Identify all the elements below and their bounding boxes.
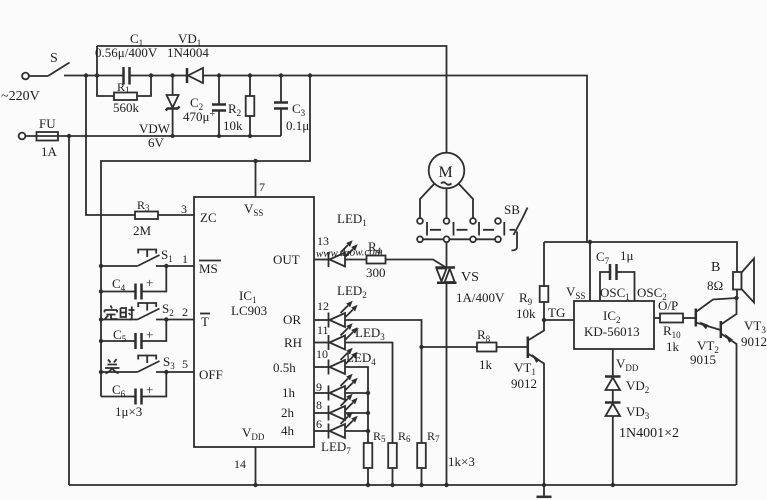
SB contact lower: [495, 236, 501, 242]
svg-text:9012: 9012: [511, 376, 537, 391]
svg-text:R9: R9: [519, 290, 533, 307]
svg-text:LED4: LED4: [346, 350, 376, 367]
svg-text:OSC1: OSC1: [600, 285, 630, 302]
node (R3 tap): [84, 73, 88, 77]
svg-text:C5: C5: [113, 327, 127, 344]
svg-text:11: 11: [317, 323, 329, 337]
motor M: [429, 153, 465, 189]
svg-text:2: 2: [182, 305, 188, 319]
node R7 on rail: [419, 483, 423, 487]
resistor R1 body: [114, 93, 137, 101]
svg-text:8: 8: [316, 398, 322, 412]
svg-text:S2: S2: [162, 301, 174, 318]
speaker B body: [733, 272, 742, 290]
svg-text:560k: 560k: [113, 100, 140, 115]
wire C1 to VD1: [130, 75, 188, 77]
wire R4 to VS gate: [386, 260, 447, 268]
transistor VT3 base bar: [720, 321, 723, 338]
speed contact circle 1 upper: [417, 218, 423, 224]
svg-text:R4: R4: [368, 239, 382, 256]
ground rail (bottom): [69, 484, 736, 486]
svg-text:VS: VS: [461, 270, 479, 285]
capacitor C4 row: [101, 266, 166, 292]
svg-text:VD2: VD2: [626, 378, 649, 395]
svg-text:S1: S1: [161, 247, 173, 264]
svg-text:R1: R1: [117, 80, 130, 95]
svg-text:8Ω: 8Ω: [707, 278, 723, 293]
wire LED7 to column: [345, 430, 368, 432]
switch S3: [138, 356, 160, 373]
svg-text:R3: R3: [137, 198, 150, 213]
svg-text:LED2: LED2: [337, 283, 367, 300]
node pin7 tap: [253, 159, 257, 163]
node C5 riser: [164, 317, 168, 321]
transistor VT2 base bar: [695, 309, 698, 327]
speed contact circle 3 lower: [470, 236, 476, 242]
VT1 collector: [528, 320, 544, 341]
switch S1: [138, 250, 160, 267]
speaker cone: [742, 259, 755, 303]
svg-text:IC2: IC2: [603, 308, 621, 325]
svg-text:C7: C7: [596, 249, 610, 266]
svg-text:KD-56013: KD-56013: [584, 324, 640, 339]
LED6: [329, 394, 358, 421]
node R8 tap: [419, 345, 423, 349]
wire contacts to triac: [446, 242, 448, 267]
wire S2 row: [101, 319, 194, 321]
wire lower contacts common: [420, 238, 498, 240]
speed contact circle 1 lower: [417, 236, 423, 242]
resistor R9: [543, 302, 545, 320]
svg-text:C4: C4: [112, 276, 126, 293]
contact bar 3: [478, 222, 480, 236]
svg-text:+: +: [146, 327, 153, 342]
label guan: [105, 359, 120, 374]
LED3: [329, 323, 358, 350]
svg-text:9015: 9015: [690, 352, 716, 367]
capacitor C5 row: [101, 320, 166, 342]
triac VS top bar: [436, 266, 456, 269]
node C3: [279, 73, 283, 77]
svg-text:9: 9: [316, 380, 322, 394]
diode VD2: [605, 375, 621, 378]
svg-text:OUT: OUT: [273, 252, 300, 267]
svg-text:13: 13: [317, 234, 329, 248]
wire pin 6: [314, 430, 329, 432]
VT2 emitter arrow (PNP): [700, 322, 709, 330]
svg-text:VT3: VT3: [744, 318, 766, 335]
resistor R3 body: [135, 212, 158, 220]
wire pin 9: [314, 392, 329, 394]
speed contact circle 2 lower: [444, 236, 450, 242]
switch S2: [138, 303, 160, 320]
svg-text:1N4004: 1N4004: [167, 45, 209, 60]
wire LED1 to R4: [345, 259, 367, 261]
svg-text:C3: C3: [292, 101, 306, 118]
resistor R7: [417, 443, 426, 468]
wire pin 13: [314, 259, 329, 261]
motor lead left: [420, 184, 435, 219]
VT3 emitter: [721, 334, 737, 486]
svg-text:ZC: ZC: [200, 210, 217, 225]
svg-text:10k: 10k: [223, 118, 243, 133]
svg-text:VSS: VSS: [244, 201, 263, 218]
node S3: [99, 370, 103, 374]
op IC1 LC903 box: [194, 197, 314, 447]
node LED7 join: [366, 429, 370, 433]
svg-text:VDW: VDW: [139, 121, 171, 136]
wire top rail to motor: [97, 46, 447, 153]
wire TG to IC2: [544, 319, 574, 321]
wire pin 12: [314, 319, 329, 321]
speed contact circle 2 upper: [444, 218, 450, 224]
svg-text:0.5h: 0.5h: [273, 360, 296, 375]
wire pin 14: [255, 447, 257, 485]
resistor R8 body: [477, 343, 497, 352]
contact bar SB: [503, 222, 505, 236]
svg-text:VSS: VSS: [566, 284, 585, 301]
svg-text:VDD: VDD: [616, 356, 639, 373]
svg-text:R5: R5: [373, 429, 386, 444]
svg-text:~220V: ~220V: [1, 89, 40, 104]
node left drop: [67, 134, 71, 138]
wire top branch riser: [96, 46, 98, 76]
wire R3 feed from live: [86, 76, 135, 216]
LED2: [329, 301, 358, 328]
svg-text:10k: 10k: [516, 306, 536, 321]
wire triac to ground rail: [446, 283, 448, 485]
node C2 bottom: [217, 134, 221, 138]
svg-text:R2: R2: [228, 101, 241, 118]
node LED6 join: [366, 411, 370, 415]
svg-text:S3: S3: [163, 354, 175, 371]
svg-text:RH: RH: [284, 335, 302, 350]
svg-text:4h: 4h: [281, 423, 295, 438]
svg-text:VDD: VDD: [242, 425, 265, 442]
svg-text:1μ: 1μ: [620, 248, 634, 263]
node S2: [99, 317, 103, 321]
node C4 riser: [164, 264, 168, 268]
contact bar 1: [426, 222, 428, 236]
svg-text:2M: 2M: [133, 223, 152, 238]
wire pin 10: [314, 366, 329, 368]
zener VDW: [172, 76, 174, 96]
svg-text:T: T: [201, 314, 209, 329]
resistor R10 body: [660, 314, 683, 323]
svg-text:3: 3: [181, 202, 187, 216]
LED5: [329, 374, 358, 401]
svg-text:6V: 6V: [148, 135, 165, 150]
node (top branch): [95, 73, 99, 77]
svg-text:R8: R8: [477, 327, 491, 344]
svg-text:1h: 1h: [282, 385, 296, 400]
capacitor C2: [218, 76, 220, 105]
VT3 collector: [721, 298, 737, 325]
wire O/P to R10: [654, 317, 660, 319]
wire pin 8: [314, 412, 329, 414]
svg-text:1A: 1A: [41, 144, 58, 159]
node pin14 on rail: [253, 483, 257, 487]
node LED5 join: [366, 391, 370, 395]
svg-text:14: 14: [234, 457, 246, 471]
svg-text:0.56μ/400V: 0.56μ/400V: [95, 45, 158, 60]
ground symbol: [543, 485, 545, 496]
svg-text:LC903: LC903: [231, 303, 267, 318]
node TG junction: [542, 318, 546, 322]
wire LED2 to R7 column: [345, 320, 422, 443]
svg-text:5: 5: [182, 357, 188, 371]
capacitor C6 row: [101, 372, 166, 397]
wire from L terminal: [29, 75, 48, 77]
diode VD3: [605, 401, 621, 404]
svg-text:LED3: LED3: [355, 325, 385, 342]
wire Vss pin (IC2): [589, 242, 591, 301]
svg-text:1k: 1k: [479, 357, 493, 372]
switch common rail node S1: [99, 264, 103, 268]
svg-text:B: B: [711, 260, 720, 275]
node R2 bottom: [248, 134, 252, 138]
node C2: [217, 73, 221, 77]
svg-text:0.1μ: 0.1μ: [286, 118, 309, 133]
node R5 on rail: [366, 483, 370, 487]
wire VDD pin (IC2): [612, 349, 614, 377]
wire LED6 to column: [345, 412, 368, 414]
triac right triangle: [445, 269, 455, 282]
svg-text:12: 12: [317, 299, 329, 313]
wire neutral rail: [25, 135, 281, 137]
motor lead right: [459, 184, 474, 219]
resistor R2: [249, 76, 251, 137]
wire R3 to pin 3: [158, 214, 194, 216]
wire S3 row: [101, 371, 194, 373]
VT2 collector: [696, 298, 737, 312]
svg-text:1k: 1k: [666, 339, 680, 354]
svg-text:1k×3: 1k×3: [448, 454, 475, 469]
transistor VT1 base bar: [527, 337, 530, 359]
triac left triangle: [437, 269, 447, 282]
wire R10 to VT2 base: [683, 317, 696, 319]
wire LED3 to R6 column: [345, 343, 393, 444]
resistor R1 parallel path: [97, 76, 151, 97]
svg-text:1A/400V: 1A/400V: [456, 290, 505, 305]
svg-text:+: +: [146, 382, 153, 397]
svg-text:1N4001×2: 1N4001×2: [619, 426, 679, 441]
svg-text:LED7: LED7: [321, 439, 351, 456]
terminal L (~220V live): [22, 73, 29, 80]
switch SB lever: [512, 208, 528, 251]
op IC2 KD-56013 box: [574, 301, 654, 349]
svg-text:470μ+: 470μ+: [183, 109, 215, 124]
svg-text:LED1: LED1: [337, 211, 367, 228]
svg-text:MS: MS: [199, 261, 218, 276]
wire R8 to VT1 base: [497, 346, 528, 348]
LED7: [329, 412, 358, 439]
LED4: [329, 348, 358, 375]
wire VD1 to 587 drop: [203, 76, 587, 243]
VT3 emitter arrow (PNP): [725, 334, 733, 343]
fuse FU body: [37, 132, 59, 141]
switch S arm: [48, 63, 70, 77]
wire LED4 to R5 column: [345, 367, 368, 443]
LED1: [329, 240, 358, 267]
motor lead mid: [446, 188, 448, 218]
capacitor C1 plates: [124, 67, 130, 85]
node C4: [99, 289, 103, 293]
node Vss drop: [588, 240, 592, 244]
svg-text:9012: 9012: [741, 334, 767, 349]
svg-text:TG: TG: [548, 305, 565, 320]
svg-text:R7: R7: [427, 429, 440, 444]
svg-text:6: 6: [316, 417, 322, 431]
svg-text:OFF: OFF: [199, 367, 223, 382]
wire S to node A: [64, 75, 124, 77]
svg-text:2h: 2h: [281, 405, 295, 420]
resistor R6: [388, 443, 397, 468]
svg-text:FU: FU: [39, 116, 56, 131]
node triac on rail: [444, 483, 448, 487]
node C5: [99, 339, 103, 343]
wire left drop to bottom rail: [68, 136, 70, 485]
triac VS bottom bar: [437, 282, 457, 285]
svg-text:OR: OR: [283, 312, 301, 327]
terminal N (neutral): [19, 133, 26, 140]
wire Vss supply line: [101, 76, 310, 397]
contact bar 2: [453, 222, 455, 236]
capacitor C7 plates: [610, 264, 617, 280]
VT2 emitter to VT3 base: [696, 323, 721, 331]
svg-text:1: 1: [182, 252, 188, 266]
wire LED5 to column: [345, 392, 368, 394]
node VD3 on rail: [611, 483, 615, 487]
motor tilde: [441, 182, 452, 185]
wire R9 to audio rail: [543, 242, 545, 287]
wire audio +V rail: [544, 242, 737, 272]
wire pin 7: [255, 161, 257, 197]
svg-text:10: 10: [316, 347, 328, 361]
capacitor C7 loop: [600, 272, 635, 301]
node R1 right: [149, 73, 153, 77]
VT1 emitter arrow (PNP): [532, 354, 540, 363]
node C6 riser: [164, 370, 168, 374]
node R2: [248, 73, 252, 77]
resistor R4 body: [367, 256, 386, 264]
svg-text:R6: R6: [398, 429, 411, 444]
svg-text:VT1: VT1: [514, 360, 536, 377]
svg-text:VD3: VD3: [626, 404, 650, 421]
svg-text:R10: R10: [663, 323, 681, 340]
wire speaker to junction: [736, 290, 738, 299]
svg-text:300: 300: [366, 265, 386, 280]
speed contact circle 3 upper: [470, 218, 476, 224]
node VT1 emitter on rail: [542, 483, 546, 487]
svg-text:S: S: [50, 51, 58, 66]
wire to R8: [422, 346, 478, 348]
node speaker/collector junction: [734, 296, 738, 300]
wire pin 11: [314, 342, 329, 344]
linkage dashed: [430, 229, 515, 231]
SB contact upper: [495, 218, 501, 224]
svg-text:SB: SB: [504, 202, 520, 217]
svg-text:7: 7: [259, 180, 265, 194]
wire S1 row: [101, 265, 194, 267]
node R6 on rail: [390, 483, 394, 487]
svg-text:O/P: O/P: [658, 298, 678, 313]
diode VD1: [186, 68, 189, 83]
label dingshi: [105, 306, 135, 320]
svg-text:C6: C6: [112, 382, 126, 399]
node VDW bottom: [171, 134, 175, 138]
VT1 emitter: [528, 354, 544, 486]
node supply drop: [308, 73, 312, 77]
svg-text:M: M: [439, 164, 453, 181]
capacitor C3: [280, 76, 282, 103]
resistor R5: [364, 443, 373, 468]
svg-text:+: +: [146, 275, 153, 290]
node VDW top: [170, 73, 174, 77]
svg-text:1μ×3: 1μ×3: [115, 404, 142, 419]
